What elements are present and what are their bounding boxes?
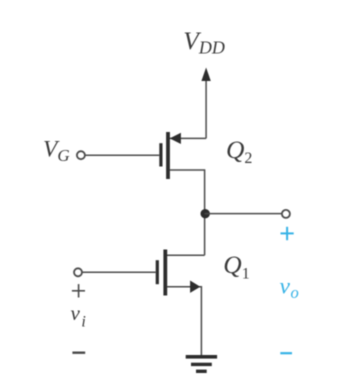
wire Q2 source lead to VDD xyxy=(170,137,207,139)
svg-text:VDD: VDD xyxy=(183,26,225,58)
wire Q1 source lead to ground xyxy=(167,287,202,356)
output minus sign (cyan) xyxy=(280,352,292,354)
ground xyxy=(186,355,217,373)
Q1 source arrow (NMOS) xyxy=(190,281,200,293)
node output junction xyxy=(201,209,210,218)
svg-text:VG: VG xyxy=(43,137,70,165)
transistor Q2 xyxy=(159,132,206,255)
input minus sign xyxy=(72,352,85,354)
wire input gate xyxy=(82,271,156,273)
svg-text:Q2: Q2 xyxy=(226,135,252,167)
svg-text:vi: vi xyxy=(71,301,86,331)
wire Q2 drain lead xyxy=(170,170,205,255)
wire VG gate xyxy=(85,154,159,156)
Q2 source arrow (PMOS) xyxy=(170,133,181,144)
Q1 channel bar xyxy=(163,250,167,296)
output plus sign (cyan) xyxy=(281,227,294,240)
power VDD arrow xyxy=(201,68,210,139)
input plus sign xyxy=(72,284,85,297)
wire output xyxy=(205,213,282,215)
terminal output xyxy=(282,210,290,218)
terminal VG xyxy=(77,151,85,159)
svg-text:vo: vo xyxy=(280,274,299,302)
svg-text:Q1: Q1 xyxy=(223,250,249,282)
transistor Q1 xyxy=(156,250,205,356)
wire Q1 drain lead xyxy=(167,254,205,256)
terminal input xyxy=(74,268,82,276)
Q2 gate bar xyxy=(159,143,162,166)
Q1 gate bar xyxy=(156,260,159,284)
Q2 channel bar xyxy=(166,132,170,179)
